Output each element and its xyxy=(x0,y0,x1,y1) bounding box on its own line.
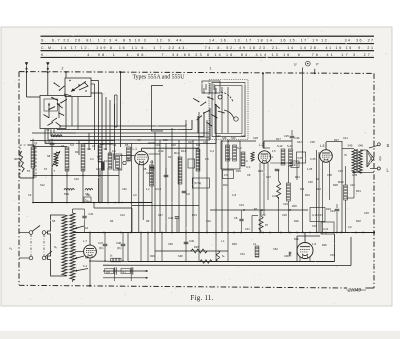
vertical wire x131 xyxy=(131,143,133,233)
gang plates verticals xyxy=(221,87,223,133)
transformer bottom lead xyxy=(72,280,74,282)
svg-text:R1b: R1b xyxy=(223,183,228,187)
left wires to amp bus xyxy=(127,233,129,262)
svg-text:C34: C34 xyxy=(239,203,244,207)
svg-text:R21: R21 xyxy=(295,175,300,179)
dark component blob xyxy=(101,162,105,171)
svg-text:S,b: S,b xyxy=(104,159,108,163)
avc bus y210 xyxy=(210,209,308,211)
svg-text:C19: C19 xyxy=(155,143,160,147)
svg-text:S8: S8 xyxy=(47,154,51,158)
svg-text:R28: R28 xyxy=(333,183,338,187)
svg-text:C7: C7 xyxy=(92,144,96,148)
terminal post U wire xyxy=(302,68,304,74)
wire L5 top xyxy=(326,141,342,143)
resistor bar R10 xyxy=(196,149,200,171)
svg-text:4,7: 4,7 xyxy=(228,157,232,161)
cap C48 xyxy=(121,244,126,246)
svg-text:S5: S5 xyxy=(52,219,56,223)
svg-text:S44: S44 xyxy=(297,140,302,144)
IF2 winding bar b xyxy=(233,145,237,161)
amp section bus y265 xyxy=(103,264,351,266)
svg-text:C35: C35 xyxy=(310,140,315,144)
resistor bar R23 xyxy=(255,246,259,257)
main HT bus y232 xyxy=(73,232,374,234)
svg-text:S2: S2 xyxy=(168,155,172,159)
wire top of resistor row xyxy=(33,146,67,148)
svg-text:L,1: L,1 xyxy=(221,239,225,243)
transformer top leads xyxy=(72,209,74,213)
amp box right vertical xyxy=(334,234,336,262)
resistor R1 diagonal xyxy=(20,151,25,172)
vertical wire O down xyxy=(302,73,304,140)
frame corner bottom right xyxy=(366,287,375,289)
svg-text:L.5: L.5 xyxy=(320,144,325,148)
tube L5 xyxy=(320,150,333,163)
svg-text:5ₕ: 5ₕ xyxy=(110,255,112,258)
middle caps xyxy=(164,175,169,177)
small coil left of L2 xyxy=(251,152,254,161)
svg-text:S17: S17 xyxy=(188,140,193,144)
rectifier leads xyxy=(89,233,91,246)
svg-text:C29: C29 xyxy=(282,213,287,217)
arrows in box S2 xyxy=(48,103,50,118)
svg-text:C₁₆: C₁₆ xyxy=(85,199,89,202)
svg-text:4,0: 4,0 xyxy=(133,193,137,197)
step wire from bus 202 xyxy=(93,203,95,209)
svg-text:C39: C39 xyxy=(338,169,343,173)
tube L1 anode wire xyxy=(141,148,143,151)
svg-text:R29: R29 xyxy=(326,207,331,211)
svg-text:1,5: 1,5 xyxy=(272,149,276,153)
narrow box left of title wire xyxy=(114,95,116,127)
mains transformer primary winding xyxy=(62,215,67,276)
svg-text:(F1): (F1) xyxy=(99,247,104,250)
bus y202 xyxy=(33,202,152,204)
svg-text:S11: S11 xyxy=(86,193,91,197)
svg-text:S6: S6 xyxy=(104,147,108,151)
output transformer bottom leads xyxy=(353,173,355,198)
svg-text:4,0: 4,0 xyxy=(112,149,116,153)
extra slashes box B xyxy=(43,115,48,118)
capacitor C15 xyxy=(50,143,55,145)
svg-text:S15: S15 xyxy=(163,138,168,142)
box A inner dots xyxy=(69,80,70,81)
svg-text:C17: C17 xyxy=(158,213,163,217)
svg-text:R7: R7 xyxy=(254,207,258,211)
wire windings top to speaker xyxy=(360,149,367,151)
svg-text:Types 555A and 555U: Types 555A and 555U xyxy=(133,74,185,81)
wire left filter xyxy=(33,145,35,178)
tube L2 xyxy=(258,151,270,163)
svg-text:C48: C48 xyxy=(116,241,121,245)
selector to frame wires xyxy=(19,232,29,234)
svg-text:R26: R26 xyxy=(292,204,297,208)
heater winding box on line xyxy=(111,258,121,262)
coil arrow in box S1 xyxy=(71,82,86,92)
svg-text:C23: C23 xyxy=(146,171,152,175)
output tube leads xyxy=(304,233,306,242)
svg-text:53A: 53A xyxy=(64,192,69,196)
svg-text:C50: C50 xyxy=(168,242,173,246)
coil S30 bar xyxy=(241,152,245,166)
svg-text:R13: R13 xyxy=(192,213,197,217)
resistor R4 bar xyxy=(81,144,85,171)
wire into L1 grid xyxy=(120,155,135,157)
chassis dash-dot frame left wire xyxy=(18,72,20,285)
chassis dash-dot frame right wire xyxy=(373,73,375,288)
output transformer core xyxy=(356,149,358,172)
cap near output tube xyxy=(289,252,291,257)
svg-text:R4: R4 xyxy=(110,219,114,223)
svg-text:4,1b: 4,1b xyxy=(323,227,329,231)
svg-text:C28: C28 xyxy=(253,136,258,140)
right column boxes near L2 xyxy=(297,152,306,163)
resistor R7 zigzag xyxy=(259,216,263,231)
coil 7117 ferrite xyxy=(51,135,62,137)
svg-text:S,4: S,4 xyxy=(210,149,214,153)
svg-text:C4b: C4b xyxy=(89,213,94,216)
svg-text:L,7: L,7 xyxy=(83,239,87,243)
heater arrow line 2 xyxy=(103,277,148,279)
svg-text:R2b: R2b xyxy=(294,219,299,223)
svg-text:C,8: C,8 xyxy=(232,193,237,197)
vertical wire from terminal U xyxy=(262,73,264,148)
aerial coil box S1 xyxy=(65,78,91,97)
wire L5 anode to transformer xyxy=(342,148,354,150)
cap C47 xyxy=(103,244,108,246)
box around R7 xyxy=(113,154,122,170)
svg-text:C2b: C2b xyxy=(203,140,208,144)
resistor R2 xyxy=(31,147,35,168)
heater arrow line 1 xyxy=(103,270,148,272)
tube L1 leads xyxy=(138,164,140,232)
svg-text:S37: S37 xyxy=(216,134,221,138)
svg-text:S40: S40 xyxy=(241,134,246,138)
svg-text:Sb: Sb xyxy=(97,155,101,159)
verticals L2 area xyxy=(278,170,280,181)
cap C46 xyxy=(82,216,86,218)
junction on bottom frame xyxy=(89,285,91,287)
svg-text:C45: C45 xyxy=(364,211,369,215)
dashed filter box left xyxy=(20,145,36,178)
left riser verticals xyxy=(78,141,80,156)
svg-text:C37: C37 xyxy=(318,213,323,217)
junction dots on top frame xyxy=(26,71,28,73)
svg-text:L.1: L.1 xyxy=(133,147,138,151)
amp section bus y261 xyxy=(128,261,335,263)
svg-text:R22: R22 xyxy=(305,193,310,197)
coil S on vertical xyxy=(217,251,220,261)
svg-text:4,3: 4,3 xyxy=(90,157,94,161)
svg-text:C42: C42 xyxy=(350,183,355,187)
svg-text:4,05: 4,05 xyxy=(352,173,358,177)
resistor bar R8 xyxy=(150,165,154,186)
svg-text:R19: R19 xyxy=(258,169,263,173)
tube L1 xyxy=(135,151,149,165)
output tube L6 xyxy=(297,243,313,259)
svg-text:S,42: S,42 xyxy=(277,144,283,148)
wires box A bottom to bundle xyxy=(71,97,73,127)
svg-text:C41: C41 xyxy=(343,136,348,140)
avc line y205 xyxy=(132,205,199,207)
svg-text:C26: C26 xyxy=(295,136,300,140)
svg-text:C53: C53 xyxy=(330,253,335,257)
paper speckles xyxy=(4,31,390,306)
svg-text:S: S xyxy=(387,143,390,148)
bend wire box A to riser xyxy=(91,83,95,85)
svg-text:3,2: 3,2 xyxy=(262,213,266,217)
L wire right of title xyxy=(152,86,164,132)
cap C8 xyxy=(239,219,243,221)
svg-text:JQL: JQL xyxy=(378,155,382,161)
label 4,7 box xyxy=(121,268,130,273)
cap C49 xyxy=(184,242,189,244)
vertical wire x342 xyxy=(341,141,343,233)
svg-text:C49: C49 xyxy=(189,239,194,243)
long verticals right of L2 xyxy=(316,150,318,233)
svg-text:C40: C40 xyxy=(168,216,174,220)
resistor bar left of L1 xyxy=(127,147,131,161)
svg-text:S,2: S,2 xyxy=(117,167,121,171)
svg-text:R35: R35 xyxy=(232,242,237,246)
resistor bar R9 xyxy=(178,157,182,184)
aerial terminal 1 xyxy=(25,62,29,72)
amp box right vertical 2 xyxy=(350,237,352,266)
cap C26 top xyxy=(290,136,295,138)
svg-text:S,6: S,6 xyxy=(70,143,74,147)
svg-text:C2: C2 xyxy=(28,193,32,197)
svg-text:R32: R32 xyxy=(356,219,361,223)
mains transformer secondary winding xyxy=(70,213,75,280)
svg-text:S7: S7 xyxy=(44,167,48,171)
zigzag inline on amp bus xyxy=(200,260,212,264)
wire y251 xyxy=(155,250,228,252)
verticals mid-left to bus xyxy=(32,168,34,203)
wire y144 stub xyxy=(100,143,113,145)
trimmer row coils xyxy=(64,189,74,191)
svg-text:C20: C20 xyxy=(171,143,176,147)
IF transformer bars S42 S43 xyxy=(281,149,285,165)
cap C23 xyxy=(150,167,155,169)
svg-text:1,2: 1,2 xyxy=(146,187,150,191)
wires from S1 to risers xyxy=(91,80,99,82)
tube L5 leads xyxy=(325,142,327,149)
tone box right xyxy=(321,222,334,234)
wave switch center cluster xyxy=(193,98,199,101)
svg-text:R24: R24 xyxy=(316,187,321,191)
oscillator trimmer box xyxy=(202,81,220,93)
IF2 trimmer box xyxy=(223,170,234,179)
svg-text:C4: C4 xyxy=(113,143,117,147)
svg-text:S48: S48 xyxy=(178,254,183,258)
svg-text:S9: S9 xyxy=(61,144,65,148)
svg-text:R11: R11 xyxy=(196,143,201,147)
svg-text:R3: R3 xyxy=(75,150,79,154)
svg-text:C,02: C,02 xyxy=(158,149,164,153)
label 4,6 box xyxy=(105,268,114,273)
bus end right xyxy=(373,231,375,233)
svg-text:S46: S46 xyxy=(358,144,363,148)
resistor R25 zigzag inline xyxy=(191,249,207,253)
svg-text:C4b: C4b xyxy=(122,187,127,191)
svg-text:C34: C34 xyxy=(245,228,250,231)
inner box B detail xyxy=(44,99,58,111)
svg-text:C8: C8 xyxy=(247,173,251,177)
title underline wire xyxy=(120,72,122,147)
svg-text:K. 4. 98. 1 4. 86: K. 4. 98. 1 4. 86. 7. 34.65 23 8 14 16. … xyxy=(41,53,373,57)
svg-text:C8: C8 xyxy=(234,216,238,220)
speaker terminal S xyxy=(369,145,378,148)
svg-text:4011: 4011 xyxy=(14,157,20,161)
svg-text:S,0: S,0 xyxy=(237,146,242,150)
resistor R3 bar xyxy=(65,147,69,171)
svg-text:C52: C52 xyxy=(273,247,278,251)
chassis dash-dot frame bottom wire xyxy=(19,285,347,288)
frame aerial box S2 xyxy=(40,96,66,129)
svg-text:S45: S45 xyxy=(348,144,353,148)
wires from gang to L1 xyxy=(198,132,209,134)
svg-text:C,0: C,0 xyxy=(246,165,251,169)
output transformer S46 winding xyxy=(358,150,362,173)
svg-text:1,05: 1,05 xyxy=(307,167,313,171)
svg-text:Sb: Sb xyxy=(316,177,320,181)
wire from L2 top to IF xyxy=(264,140,292,142)
svg-text:4,0,3: 4,0,3 xyxy=(155,187,161,191)
tuning gang inner box xyxy=(215,86,242,134)
box 4,18 xyxy=(310,208,325,222)
tuning gang outer dotted box xyxy=(209,80,248,140)
svg-text:2: 2 xyxy=(62,67,64,71)
svg-text:C51: C51 xyxy=(240,252,245,256)
trimmer circle xyxy=(123,161,126,164)
variable coil S7 xyxy=(54,152,58,166)
svg-text:4,9: 4,9 xyxy=(348,225,352,229)
resistor zigzag R20 xyxy=(277,181,281,199)
IF trimmers xyxy=(291,161,299,168)
right column components xyxy=(344,185,348,200)
svg-text:1: 1 xyxy=(210,66,212,70)
svg-text:1,1: 1,1 xyxy=(150,160,154,164)
wires down to amp bus xyxy=(140,233,142,262)
terminal O circle xyxy=(305,61,310,66)
tap arrow b4 top xyxy=(75,226,84,229)
svg-text:C38: C38 xyxy=(327,173,332,177)
selector levers xyxy=(32,226,40,232)
svg-text:4,7: 4,7 xyxy=(122,270,126,274)
svg-text:R25: R25 xyxy=(194,245,199,249)
svg-text:C29: C29 xyxy=(283,202,288,206)
wire windings bottom xyxy=(352,172,374,174)
wire y133 left xyxy=(32,132,76,134)
speaker terminal L xyxy=(370,168,377,170)
svg-text:1,0: 1,0 xyxy=(244,159,248,163)
wire top mid-left xyxy=(32,139,34,147)
svg-text:C12: C12 xyxy=(120,213,125,217)
svg-text:R2b: R2b xyxy=(294,237,299,241)
IF transformer 2 box xyxy=(221,141,240,169)
svg-text:C47: C47 xyxy=(98,241,103,245)
svg-text:R25: R25 xyxy=(236,169,241,173)
svg-text:(S,TE): (S,TE) xyxy=(194,182,201,185)
svg-text:S39: S39 xyxy=(231,137,236,140)
svg-text:R,9: R,9 xyxy=(300,187,305,191)
svg-text:C1: C1 xyxy=(34,141,38,145)
svg-text:C,05: C,05 xyxy=(310,157,316,161)
wire y140 left xyxy=(30,140,115,142)
band cable bundle wires xyxy=(60,125,186,127)
svg-text:R3b: R3b xyxy=(322,243,327,247)
IF2 winding bar a xyxy=(226,145,230,161)
svg-text:Fig. 11.: Fig. 11. xyxy=(191,295,214,302)
mains transformer frame outline xyxy=(48,215,65,276)
svg-text:S38: S38 xyxy=(222,137,227,140)
svg-text:C44: C44 xyxy=(330,209,335,213)
wave switch contacts left xyxy=(54,83,60,87)
svg-text:R14: R14 xyxy=(181,149,186,153)
rectifier tube L7 xyxy=(84,245,97,258)
left wire from aerial down xyxy=(26,72,28,97)
box R15 xyxy=(192,178,209,188)
svg-text:4,2: 4,2 xyxy=(137,138,141,142)
svg-text:C31: C31 xyxy=(292,164,297,167)
center vertical wires xyxy=(154,132,156,233)
filament line y261 left part xyxy=(90,260,128,263)
svg-text:b.4: b.4 xyxy=(83,264,87,268)
svg-text:L,5: L,5 xyxy=(312,242,317,246)
svg-text:b4: b4 xyxy=(85,226,89,230)
svg-text:1,8: 1,8 xyxy=(205,157,209,161)
voltage selector circles xyxy=(29,231,33,235)
svg-text:4,0b: 4,0b xyxy=(272,194,278,198)
svg-text:R5: R5 xyxy=(125,143,129,147)
svg-text:4,1: 4,1 xyxy=(270,155,274,159)
tap arrow b4 bottom xyxy=(75,269,88,272)
svg-text:C27: C27 xyxy=(266,175,271,179)
gang section arc 1 xyxy=(221,92,233,102)
svg-text:R17: R17 xyxy=(276,137,281,141)
svg-text:C30: C30 xyxy=(308,180,313,184)
svg-text:4,6: 4,6 xyxy=(106,270,110,274)
tube L2 leads xyxy=(263,141,265,149)
resistor R7 bar xyxy=(116,156,120,169)
svg-text:R30: R30 xyxy=(338,180,344,184)
svg-text:C22: C22 xyxy=(206,219,211,223)
chassis dash-dot frame top wire xyxy=(19,72,374,74)
svg-text:C3b: C3b xyxy=(284,254,289,258)
svg-text:R14: R14 xyxy=(174,151,180,155)
aerial terminal 2 xyxy=(46,62,50,72)
loudspeaker symbol xyxy=(367,150,374,167)
tuning gang mid box xyxy=(212,83,245,137)
svg-text:C33: C33 xyxy=(312,224,317,228)
svg-text:(F1): (F1) xyxy=(117,247,122,250)
component value table rules xyxy=(41,35,375,37)
svg-text:C25: C25 xyxy=(284,134,289,138)
cap C16 xyxy=(84,197,91,202)
gang section arc 2 xyxy=(224,110,234,119)
output transformer S45 winding xyxy=(352,150,356,173)
svg-text:4,5: 4,5 xyxy=(224,173,228,177)
selector dash links xyxy=(30,235,32,257)
resistor R6 bar xyxy=(108,153,112,169)
output tube box xyxy=(296,236,298,262)
svg-text:4,8: 4,8 xyxy=(186,192,190,196)
svg-text:S. 6,7 23. 26. 81. 1 2 3 4. 8: S. 6,7 23. 26. 81. 1 2 3 4. 8 5 10 3 12.… xyxy=(41,39,373,43)
svg-text:R27: R27 xyxy=(334,138,339,142)
svg-text:R33: R33 xyxy=(150,254,155,258)
svg-text:R8: R8 xyxy=(143,167,147,171)
